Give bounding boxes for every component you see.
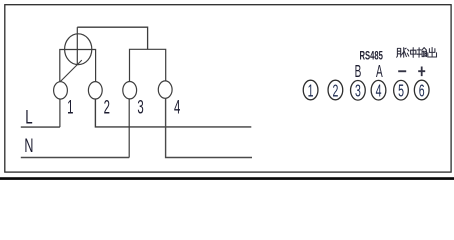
svg-text:N: N: [24, 135, 33, 156]
svg-text:3: 3: [137, 98, 144, 119]
svg-text:5: 5: [398, 82, 404, 101]
wire terminal1 to L: [59, 99, 61, 127]
svg-text:1: 1: [308, 82, 314, 101]
glyph mai: [397, 48, 401, 57]
terminal circle 1: [303, 80, 318, 101]
glyph chu: [428, 48, 437, 58]
bottom black bar: [0, 177, 454, 180]
terminal circle 4: [371, 80, 386, 101]
pin plus: [418, 67, 425, 77]
terminal 3: [123, 82, 137, 99]
terminal circle 3: [351, 81, 366, 102]
terminal 2: [88, 82, 102, 99]
svg-text:1: 1: [67, 98, 73, 119]
L-side bridge wire over terminals 1-2: [60, 50, 96, 82]
svg-text:4: 4: [376, 82, 382, 101]
terminal circle 6: [414, 80, 429, 101]
glyph shu: [417, 48, 421, 57]
terminal 4: [158, 81, 172, 98]
wire terminal4 N-out: [166, 98, 252, 157]
svg-text:3: 3: [355, 82, 361, 101]
voltage coil circle: [65, 34, 92, 65]
pulse output label (Chinese: pulse output): [397, 48, 437, 58]
terminal circle 2: [328, 80, 343, 101]
L line: [21, 126, 60, 128]
terminal circle 5: [394, 80, 409, 101]
wire terminal3 to N: [128, 99, 130, 158]
enclosure frame: [5, 5, 451, 172]
wire terminal2 L-out: [95, 99, 251, 127]
top wire to N-side bridge: [77, 27, 147, 49]
N line: [21, 157, 129, 159]
N-side bridge wire over terminals 3-4: [130, 49, 166, 81]
svg-text:A: A: [376, 61, 383, 81]
svg-text:2: 2: [104, 98, 110, 119]
svg-text:2: 2: [332, 82, 338, 101]
svg-text:6: 6: [419, 82, 425, 101]
svg-text:B: B: [355, 61, 362, 81]
voltage hook diagonal: [61, 60, 82, 81]
terminal 1: [54, 82, 68, 99]
coil vertical wire: [76, 27, 78, 64]
svg-text:L: L: [25, 107, 32, 128]
svg-text:4: 4: [174, 98, 181, 119]
pin minus: [398, 70, 406, 72]
glyph chong: [407, 49, 409, 56]
